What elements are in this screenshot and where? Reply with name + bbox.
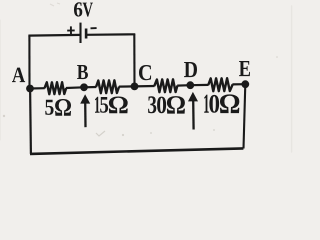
wire: resistor R1 to node B <box>66 86 84 89</box>
wire: node A to resistor R1 <box>30 87 45 90</box>
label 15 ohm value of R2 <box>95 97 128 114</box>
wire: bottom return rail <box>30 148 243 154</box>
wire: node C to resistor R3 <box>135 85 155 88</box>
node B label <box>77 65 88 79</box>
node D junction dot <box>186 81 194 89</box>
node C label <box>139 65 151 80</box>
resistor R4 10 ohm zigzag (between D and E) <box>208 78 232 91</box>
node A label <box>12 68 25 83</box>
wire: top rail left segment (corner to battery + plate) <box>28 34 80 37</box>
battery V1 short (-) plate <box>85 29 88 39</box>
wire: node D to resistor R4 <box>190 84 208 86</box>
scan smudge check mark bottom center <box>96 131 105 136</box>
paper background <box>0 0 293 159</box>
wire: left vertical of bottom return (node A down) <box>29 89 32 154</box>
faint page edge streaks <box>1 6 292 152</box>
node B junction dot <box>80 83 88 91</box>
battery polarity - sign <box>91 27 97 29</box>
node E label <box>239 61 250 76</box>
resistor R3 30 ohm zigzag (between C and D) <box>154 79 177 92</box>
node A junction dot <box>26 85 34 93</box>
node C junction dot <box>131 83 139 91</box>
wire: top rail right segment (battery - plate to right corner) <box>86 33 135 36</box>
label 5 ohm value of R1 <box>45 99 71 116</box>
wire: resistor R4 to node E <box>232 83 245 85</box>
current arrow I1 at node B (pointing up) <box>80 94 90 127</box>
battery V1 long (+) plate <box>79 23 81 43</box>
resistor R1 5 ohm zigzag (between A and B) <box>45 82 67 94</box>
wire: right vertical of battery loop (top rail down to node C) <box>133 34 135 86</box>
wire: resistor R3 to node D <box>177 84 190 87</box>
wire: left vertical of battery loop (node A up to top rail) <box>28 36 30 89</box>
scan specks <box>3 56 278 136</box>
wire: resistor R2 to node C <box>119 85 135 87</box>
scan smudge top left of 6V <box>50 3 60 6</box>
wire: right vertical of bottom return (node E down) <box>244 84 246 148</box>
battery polarity + sign <box>67 26 75 34</box>
label 10 ohm value of R4 <box>204 94 239 113</box>
resistor R2 15 ohm zigzag (between B and C) <box>96 80 119 93</box>
wire: node B to resistor R2 <box>84 86 96 89</box>
node E junction dot <box>241 80 249 88</box>
label 6V battery value <box>74 2 93 16</box>
node D label <box>184 62 197 77</box>
current arrow I2 at node D (pointing up) <box>188 92 198 130</box>
label 30 ohm value of R3 <box>148 96 185 114</box>
